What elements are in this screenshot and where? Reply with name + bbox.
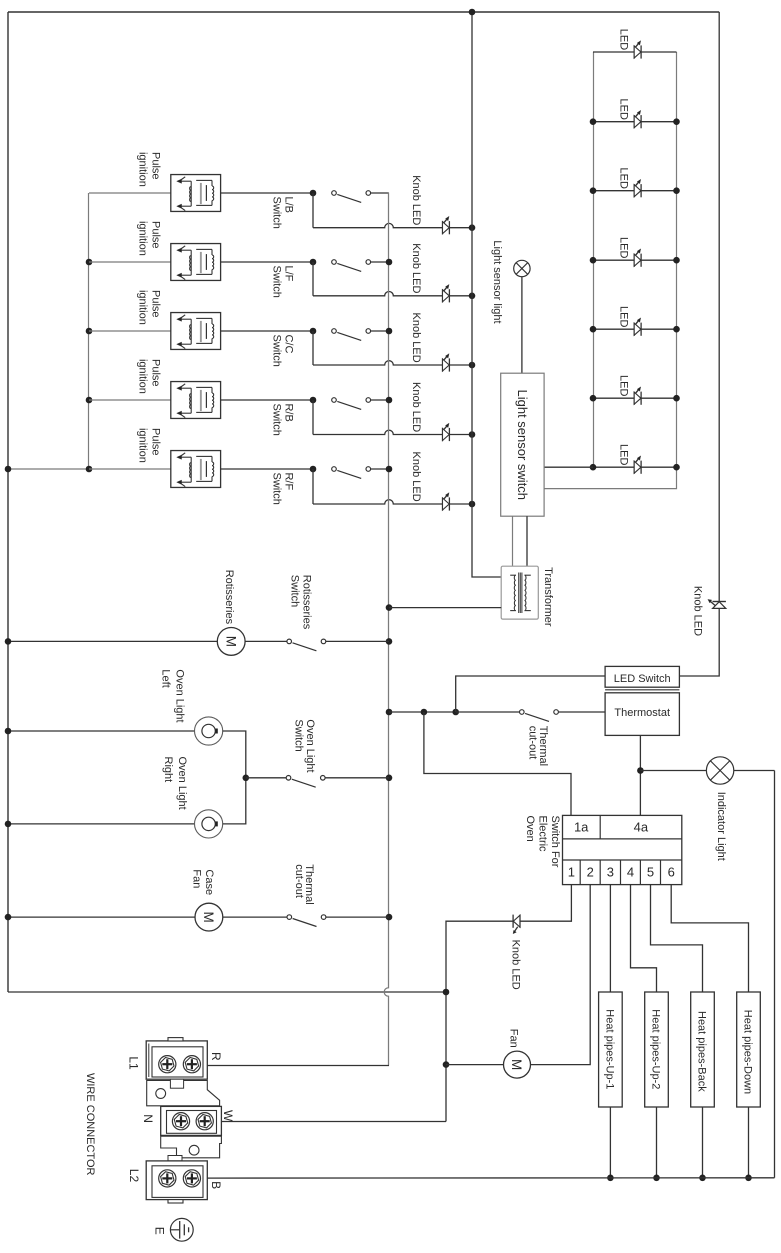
wire 1a feed (424, 712, 571, 815)
label Knob LED row 1 (410, 175, 422, 225)
switch S6 thermal cut-out (520, 710, 559, 722)
svg-text:3: 3 (607, 865, 614, 880)
label N (141, 1114, 155, 1123)
svg-text:Heat pipes-Down: Heat pipes-Down (742, 1010, 754, 1094)
svg-text:Switch: Switch (270, 335, 282, 367)
wire ladder row 5 (593, 328, 677, 330)
LED D6 (634, 387, 641, 405)
wire ladder row7 to light sensor switch (544, 466, 593, 468)
svg-text:N: N (141, 1114, 155, 1123)
wire knob LED row 3 (hop over bus) (313, 361, 443, 365)
label Heat pipes-Up-1 (604, 1009, 616, 1089)
wire sensor switch secondary pin 2 (526, 516, 528, 566)
label LED D2 (618, 99, 630, 120)
switch S2 L/F (310, 259, 371, 272)
wire S2 output to bus (370, 261, 389, 263)
svg-text:C/C: C/C (282, 335, 294, 354)
svg-text:Right: Right (162, 757, 174, 783)
label Heat pipes-Back (696, 1011, 708, 1092)
svg-text:ignition: ignition (137, 290, 149, 325)
wire ladder row 6 (593, 397, 677, 399)
label Case Fan (191, 869, 216, 895)
svg-text:Pulse: Pulse (150, 152, 162, 180)
wire ladder row 4 (593, 259, 677, 261)
svg-text:Pulse: Pulse (150, 290, 162, 318)
svg-text:LED Switch: LED Switch (614, 673, 671, 685)
motor M3 fan (504, 1051, 531, 1078)
junction dot bus472 row 5 (469, 501, 476, 508)
svg-text:Switch: Switch (289, 575, 301, 607)
junction dot W-node fan branch (443, 1061, 450, 1068)
knob LED D11 (443, 423, 450, 441)
switch S3 C/C (310, 328, 371, 341)
junction dot chain R/F row (86, 466, 93, 473)
junction dot R-bus R/B out (386, 397, 393, 404)
wire pin6 to heat pipe EL4 (671, 885, 748, 992)
terminal link plate 1 (147, 1079, 220, 1106)
wire S10 to R-bus (326, 916, 389, 918)
label Fan (508, 1029, 520, 1048)
wire sensor switch secondary pin 1 (512, 516, 514, 566)
svg-text:Switch For: Switch For (549, 816, 561, 868)
label Pulse ignition PI1 (137, 152, 162, 187)
svg-text:1a: 1a (574, 820, 589, 835)
junction dot EL1 bottom (607, 1175, 614, 1182)
svg-text:ignition: ignition (137, 428, 149, 463)
junction dot bus472 row 2 (469, 293, 476, 300)
svg-text:Switch: Switch (270, 473, 282, 505)
svg-text:R/F: R/F (282, 473, 294, 491)
svg-text:4: 4 (627, 865, 634, 880)
wire pulse-ignition supply chain x=89 (88, 193, 90, 469)
svg-text:E: E (152, 1227, 166, 1235)
svg-text:ignition: ignition (137, 359, 149, 394)
junction dot oven lamps joint (243, 775, 250, 782)
svg-text:Pulse: Pulse (150, 428, 162, 456)
svg-text:M: M (201, 911, 216, 922)
LED D4 (634, 249, 641, 267)
wire knob LED row 2 (hop over bus) (313, 292, 443, 296)
wire L/B output corner into R-bus (370, 192, 389, 194)
svg-text:Knob LED: Knob LED (410, 243, 422, 293)
svg-text:Knob LED: Knob LED (410, 175, 422, 225)
wire ladder row 2 (593, 121, 677, 123)
wire to thermal cutout S6 (456, 711, 520, 713)
wire S4 output to bus (370, 399, 389, 401)
label LED D3 (618, 168, 630, 189)
wire to indicator lamp (640, 770, 706, 772)
pulse ignition module PI4 (89, 382, 221, 419)
wire PI4 output to switch S4 (221, 399, 313, 401)
svg-text:Heat pipes-Up-1: Heat pipes-Up-1 (604, 1009, 616, 1089)
label R/B Switch (270, 404, 294, 436)
label Switch For Electric Oven (524, 816, 561, 868)
label Indicator Light (715, 792, 727, 861)
wire LED ladder right rail (544, 52, 676, 489)
junction dot 1a feed branch (421, 709, 428, 716)
oven selector switch S7 (Switch For Electric Oven) (563, 815, 682, 884)
label Pulse ignition PI3 (137, 290, 162, 325)
svg-text:Left: Left (159, 669, 171, 687)
junction dot ladder right row 3 (673, 187, 680, 194)
junction dot chain C/C row (86, 328, 93, 335)
junction dot ladder right row 5 (673, 326, 680, 333)
label R/F Switch (270, 473, 294, 505)
wire thermostat to 4a (639, 735, 641, 815)
lamp light sensor light (514, 260, 530, 276)
svg-text:Pulse: Pulse (150, 359, 162, 387)
junction dot R-bus C/C out (386, 328, 393, 335)
LED D3 (634, 179, 641, 197)
wire knob LED D9 to bus x=472 (449, 295, 472, 297)
wire PI5 output to switch S5 (221, 468, 313, 470)
svg-text:Knob LED: Knob LED (410, 313, 422, 363)
svg-text:Knob LED: Knob LED (410, 452, 422, 502)
svg-text:Rotisseries: Rotisseries (223, 570, 235, 625)
label Pulse ignition PI2 (137, 221, 162, 256)
svg-text:cut-out: cut-out (293, 864, 305, 898)
thermostat U3 (605, 693, 679, 736)
junction dot ladder left row 7 (590, 464, 597, 471)
wire S8 to R-bus (326, 640, 389, 642)
knob LED D10 (443, 354, 450, 372)
svg-text:Knob LED: Knob LED (410, 382, 422, 432)
switch S8 rotisseries switch (287, 639, 326, 651)
wire lamp left to joint (223, 731, 246, 778)
wire border to oven light right (8, 823, 195, 825)
wire lamp right to joint (223, 778, 246, 824)
junction dot chain R/B row (86, 397, 93, 404)
svg-text:Switch: Switch (270, 404, 282, 436)
svg-text:R: R (209, 1052, 223, 1061)
junction dot ladder right row 6 (673, 395, 680, 402)
wire fan to pin2 (531, 885, 591, 1065)
wire LED ladder left rail (593, 52, 595, 467)
label L/F Switch (270, 266, 294, 298)
wire knob LED D12 to bus x=472 (449, 503, 472, 505)
transformer T1 (501, 566, 538, 619)
wire R-bus to transformer pin (389, 607, 501, 609)
wire ladder row 7 (593, 466, 677, 468)
svg-text:Switch: Switch (293, 719, 305, 751)
svg-text:LED: LED (618, 168, 630, 189)
label Thermal cut-out upper (526, 726, 549, 766)
motor M1 rotisseries (217, 628, 245, 656)
svg-text:Knob LED: Knob LED (509, 940, 521, 990)
svg-text:Electric: Electric (537, 816, 549, 853)
switch S9 oven light switch (286, 776, 325, 788)
label Thermal cut-out lower (293, 864, 315, 904)
label Knob LED D13 (692, 586, 704, 636)
switch S1 L/B (310, 190, 371, 203)
wire pin5 to heat pipe EL3 (651, 885, 703, 992)
label Knob LED row 4 (410, 382, 422, 432)
svg-text:LED: LED (618, 237, 630, 258)
wire joint to switch S9 (246, 777, 286, 779)
heating element EL2 Heat pipes-Up-2 (645, 992, 669, 1107)
svg-text:L2: L2 (127, 1169, 141, 1183)
svg-text:WIRE CONNECTOR: WIRE CONNECTOR (84, 1073, 96, 1176)
wire S1 node down to knob LED row (312, 193, 314, 228)
divider line (605, 689, 679, 691)
knob LED D12 (443, 493, 450, 511)
svg-text:Pulse: Pulse (150, 221, 162, 249)
junction dot bus472 row 4 (469, 431, 476, 438)
svg-text:R/B: R/B (282, 404, 294, 422)
junction dot border oven light left (5, 728, 12, 735)
junction dot ladder left row 2 (590, 118, 597, 125)
wire PI3 output to switch S3 (221, 330, 313, 332)
junction dot ladder left row 6 (590, 395, 597, 402)
label L2 (127, 1169, 141, 1183)
junction dot ladder left row 4 (590, 257, 597, 264)
wire N-line bottom (left frame to node W) (8, 991, 446, 993)
svg-text:Rotisseries: Rotisseries (300, 575, 312, 630)
label Oven Light Right (162, 757, 188, 810)
label Pulse ignition PI4 (137, 359, 162, 394)
svg-text:M: M (223, 636, 238, 647)
svg-text:Transformer: Transformer (542, 567, 554, 627)
wire border to oven light left (8, 730, 195, 732)
label LED D4 (618, 237, 630, 258)
label Oven Light Left (159, 669, 185, 722)
svg-text:L/B: L/B (282, 197, 294, 214)
wire S3 node down to knob LED row (312, 331, 314, 365)
svg-text:Heat pipes-Up-2: Heat pipes-Up-2 (650, 1009, 662, 1089)
wire knob LED D8 to bus x=472 (449, 227, 472, 229)
svg-text:2: 2 (587, 865, 594, 880)
junction dot bus472 row 3 (469, 362, 476, 369)
wire branch up to LED switch (456, 676, 605, 712)
wire S3 output to bus (370, 330, 389, 332)
label Knob LED row 2 (410, 243, 422, 293)
wire lamp to light sensor switch (521, 277, 523, 374)
terminal link plate 2 (161, 1136, 222, 1161)
svg-text:4a: 4a (634, 820, 649, 835)
junction dot ladder left row 5 (590, 326, 597, 333)
svg-text:Light sensor switch: Light sensor switch (515, 390, 530, 501)
wire EL1 to bottom bus (609, 1107, 611, 1178)
light sensor switch U1 (501, 373, 544, 516)
switch S5 R/F (310, 466, 371, 479)
wire S6 to thermostat (559, 711, 606, 713)
wire M1 to switch S8 (245, 640, 287, 642)
svg-text:Indicator Light: Indicator Light (715, 792, 727, 861)
wire S1 output to bus (370, 192, 389, 194)
wire S5 node down to knob LED row (312, 469, 314, 504)
label Knob LED row 3 (410, 313, 422, 363)
junction dot ladder right row 7 (673, 464, 680, 471)
junction dot ladder right row 2 (673, 118, 680, 125)
svg-text:Case: Case (203, 869, 215, 895)
svg-text:LED: LED (618, 306, 630, 327)
svg-text:Heat pipes-Back: Heat pipes-Back (696, 1011, 708, 1092)
junction dot ladder right row 4 (673, 257, 680, 264)
junction dot border x=8 R/F row (5, 466, 12, 473)
pulse ignition module PI1 (89, 175, 221, 212)
wire EL3 to bottom bus (702, 1107, 704, 1178)
wire knob LED D11 to bus x=472 (449, 434, 472, 436)
svg-text:LED: LED (618, 375, 630, 396)
svg-text:1: 1 (568, 865, 575, 880)
junction dot border oven light right (5, 821, 12, 828)
knob LED D13 (708, 599, 726, 608)
wire R-bus to thermal cutout row (389, 711, 456, 713)
svg-text:W: W (221, 1110, 235, 1122)
svg-text:Switch: Switch (270, 197, 282, 229)
svg-text:Fan: Fan (508, 1029, 520, 1048)
svg-text:LED: LED (618, 29, 630, 50)
label L1 (127, 1056, 141, 1070)
wire border to case fan (8, 916, 195, 918)
wire N-line right drop (top border down to knob LED D13) (718, 12, 720, 602)
wire knob-LED common bus x=472 (472, 12, 501, 577)
switch S10 thermal cut-out (287, 915, 326, 927)
wire knob LED row 5 (hop over bus) (313, 500, 443, 504)
svg-text:B: B (209, 1181, 223, 1189)
svg-text:ignition: ignition (137, 221, 149, 256)
motor M2 case fan (195, 903, 223, 931)
wire pin1 to knob LED D14 (520, 885, 572, 922)
wire M2 to thermal cutout S10 (223, 916, 287, 918)
wire right rail (indicator to bottom bus) (774, 771, 776, 1178)
switch S4 R/B (310, 397, 371, 410)
label LED D5 (618, 306, 630, 327)
wire pin3 to heat pipe EL1 (609, 885, 611, 992)
label W (221, 1110, 235, 1122)
junction dot bus472 top border (469, 9, 476, 16)
terminal block TB3 (L2/B) (146, 1161, 207, 1203)
wire connector W to W-node (212, 1121, 446, 1123)
svg-text:M: M (509, 1059, 524, 1070)
junction dot R-bus rotisseries switch out (386, 638, 393, 645)
svg-text:ignition: ignition (137, 152, 149, 187)
LED D2 (634, 110, 641, 128)
junction dot R-bus case fan switch out (386, 914, 393, 921)
terminal block TB2 (N/W) (161, 1106, 222, 1135)
label R (209, 1052, 223, 1061)
label Oven Light Switch (293, 719, 317, 772)
pulse ignition module PI3 (89, 313, 221, 350)
wire pin4 to heat pipe EL2 (631, 885, 657, 992)
junction dot LED switch branch (452, 709, 459, 716)
lamp oven light left (195, 717, 223, 745)
wire indicator lamp to right rail (734, 770, 775, 772)
wire EL4 to bottom bus (748, 1107, 750, 1178)
label Pulse ignition PI5 (137, 428, 162, 463)
svg-text:Light sensor light: Light sensor light (491, 240, 503, 323)
pulse ignition module PI5 (89, 451, 221, 488)
wire knob LED D10 to bus x=472 (449, 364, 472, 366)
lamp indicator light (706, 757, 733, 784)
label E (152, 1227, 166, 1235)
label Knob LED D14 (509, 940, 521, 990)
junction dot R-bus thermostat feed (386, 709, 393, 716)
heating element EL3 Heat pipes-Back (691, 992, 715, 1107)
junction border-to-chain wire (8, 468, 89, 470)
wire bus472 to transformer pin (472, 576, 501, 578)
svg-text:Oven Light: Oven Light (174, 669, 186, 722)
lamp oven light right (195, 810, 223, 838)
junction dot indicator branch (637, 767, 644, 774)
label C/C Switch (270, 335, 294, 367)
junction dot bus472 row 1 (469, 224, 476, 231)
junction dot R-bus transformer primary (386, 604, 393, 611)
wire D13 to LED switch (679, 608, 719, 676)
wire N-line top border (8, 11, 719, 13)
junction dot ladder left row 3 (590, 187, 597, 194)
knob LED D9 (443, 284, 450, 302)
wire EL2 to bottom bus (656, 1107, 658, 1178)
wire S9 to R-bus (325, 777, 389, 779)
wire S2 node down to knob LED row (312, 262, 314, 296)
svg-text:5: 5 (647, 865, 654, 880)
junction dot R-bus R/F out (386, 466, 393, 473)
wire S5 output to bus (370, 468, 389, 470)
junction dot EL2 bottom (653, 1175, 660, 1182)
svg-text:L1: L1 (127, 1056, 141, 1070)
LED D1 (634, 41, 641, 59)
wire D14 to W-node (446, 921, 513, 1121)
terminal block TB1 (R/L1) (146, 1038, 207, 1080)
wire border to rotisseries motor (8, 640, 217, 642)
label LED D1 (618, 29, 630, 50)
svg-text:Switch: Switch (270, 266, 282, 298)
label Light sensor light (491, 240, 503, 323)
label WIRE CONNECTOR (84, 1073, 96, 1176)
junction dot EL3 bottom (699, 1175, 706, 1182)
svg-text:6: 6 (668, 865, 675, 880)
wire fan branch (446, 1064, 503, 1066)
label B (209, 1181, 223, 1189)
heating element EL4 Heat pipes-Down (737, 992, 761, 1107)
knob LED D14 (513, 915, 520, 934)
wire PI1 output to switch S1 (221, 192, 313, 194)
label Transformer (542, 567, 554, 627)
label LED D7 (618, 444, 630, 465)
svg-text:Oven Light: Oven Light (176, 757, 188, 810)
wire connector R to R-bus (200, 1065, 390, 1067)
wire N-line left border (7, 12, 9, 992)
svg-text:LED: LED (618, 444, 630, 465)
junction dot border case fan (5, 914, 12, 921)
label Knob LED row 5 (410, 452, 422, 502)
junction dot R-bus oven light switch out (386, 775, 393, 782)
junction dot EL4 bottom (745, 1175, 752, 1182)
wire ladder row 1 (593, 51, 677, 53)
knob LED D8 (443, 216, 450, 234)
label Heat pipes-Up-2 (650, 1009, 662, 1089)
LED D7 (634, 456, 641, 474)
label Rotisseries (223, 570, 235, 625)
svg-text:Oven Light: Oven Light (304, 719, 316, 772)
LED D5 (634, 318, 641, 336)
svg-text:cut-out: cut-out (526, 726, 538, 760)
LED switch U2 (605, 666, 679, 687)
label Light sensor switch (515, 390, 530, 501)
junction dot W-node frame (443, 989, 450, 996)
pulse ignition module PI2 (89, 244, 221, 281)
wire knob LED row 4 (hop over bus) (313, 430, 443, 434)
wire knob LED row 1 (hop over bus) (313, 223, 443, 227)
wire S4 node down to knob LED row (312, 400, 314, 435)
label L/B Switch (270, 197, 294, 229)
wire R-bus x=389 (switch outputs down to connector R) (384, 193, 388, 1066)
junction dot R-bus L/F out (386, 259, 393, 266)
wire PI2 output to switch S2 (221, 261, 313, 263)
svg-text:Oven: Oven (524, 816, 536, 842)
svg-text:Thermostat: Thermostat (614, 707, 670, 719)
